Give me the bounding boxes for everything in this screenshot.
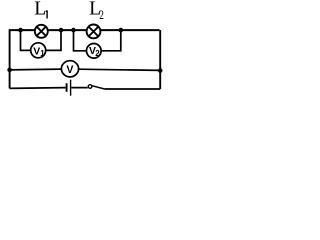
svg-text:L: L	[34, 0, 46, 20]
svg-text:1: 1	[40, 49, 45, 58]
svg-text:2: 2	[99, 9, 104, 23]
svg-text:V: V	[66, 64, 73, 76]
svg-text:2: 2	[95, 49, 100, 58]
svg-text:V: V	[33, 46, 40, 57]
